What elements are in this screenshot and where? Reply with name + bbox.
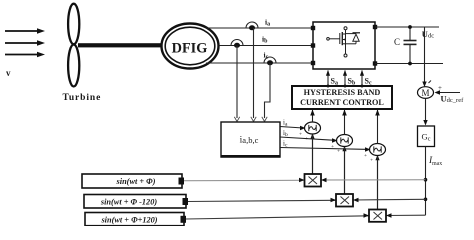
svg-text:sin(wt + Φ -120): sin(wt + Φ -120) (100, 198, 157, 207)
svg-text:+: + (299, 132, 302, 138)
svg-text:CURRENT CONTROL: CURRENT CONTROL (300, 98, 384, 107)
svg-text:+: + (370, 158, 373, 164)
svg-text:C: C (394, 37, 400, 47)
svg-text:sin(wt + Φ): sin(wt + Φ) (116, 177, 156, 186)
svg-text:v: v (6, 68, 11, 78)
svg-text:+: + (305, 136, 308, 142)
svg-text:ia,b,c: ia,b,c (240, 135, 259, 146)
svg-text:+: + (438, 84, 442, 92)
svg-text:Turbine: Turbine (63, 93, 102, 103)
svg-text:M: M (421, 88, 429, 98)
svg-text:+: + (331, 144, 334, 150)
svg-text:HYSTERESIS BAND: HYSTERESIS BAND (304, 88, 381, 97)
svg-text:DFIG: DFIG (172, 40, 208, 56)
svg-text:sin(wt + Φ+120): sin(wt + Φ+120) (100, 216, 157, 225)
svg-text:+: + (337, 149, 340, 155)
svg-text:+: + (364, 153, 367, 159)
